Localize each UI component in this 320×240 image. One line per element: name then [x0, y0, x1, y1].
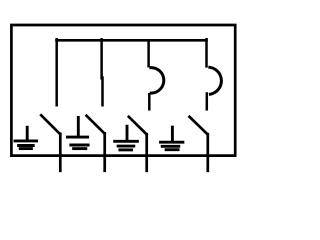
pin 4 — [206, 134, 209, 171]
ground G4 — [161, 127, 183, 150]
socket contact arc J2 — [210, 67, 222, 94]
ground G1 — [15, 127, 37, 148]
wire bus (top horizontal) — [57, 39, 207, 42]
pin 1 — [59, 134, 62, 171]
switch S2 blade — [87, 116, 105, 134]
ground G2 — [67, 117, 88, 148]
switch S3 blade — [129, 117, 147, 135]
wire W2 — [100, 39, 103, 105]
wire W3 lower stub — [148, 94, 151, 109]
enclosure box — [11, 25, 235, 156]
wire W4 (bus right end down) — [205, 39, 208, 66]
wire W4 lower stub — [206, 94, 209, 110]
wire W1 (bus left end down) — [55, 39, 58, 105]
pin 2 — [103, 133, 106, 170]
pin 3 — [145, 134, 148, 171]
switch S1 blade — [41, 115, 60, 134]
switch S4 blade — [190, 117, 208, 135]
socket contact arc J1 — [151, 68, 164, 94]
ground G3 — [115, 126, 138, 150]
wire W3 upper stub — [147, 40, 150, 66]
